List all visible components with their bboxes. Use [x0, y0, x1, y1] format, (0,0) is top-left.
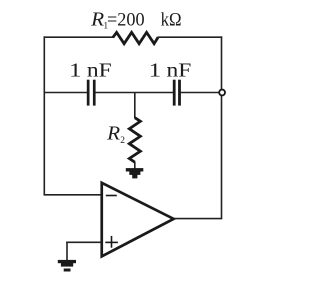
wire: right vertical of feedback loop: [221, 36, 223, 218]
wire: capacitor row middle segment: [95, 92, 173, 94]
op-amp U1 plus sign: [105, 236, 118, 248]
wire: left vertical of feedback loop: [43, 36, 45, 194]
svg-text:1: 1: [69, 59, 82, 81]
wire: op-amp output: [174, 218, 222, 220]
svg-text:=200: =200: [107, 9, 145, 30]
capacitor C1: [87, 80, 96, 106]
resistor R2: [129, 118, 140, 163]
wire: top horizontal left segment: [44, 36, 114, 38]
svg-text:kΩ: kΩ: [161, 9, 182, 30]
wire: capacitor row left segment: [44, 92, 87, 94]
svg-text:R: R: [106, 123, 120, 144]
svg-text:R: R: [90, 9, 104, 30]
svg-text:1: 1: [149, 59, 162, 81]
ground: at non-inverting input: [58, 260, 76, 272]
op-amp U1: [100, 181, 176, 259]
ground: below R2: [126, 168, 144, 178]
wire: inverting input: [44, 194, 102, 196]
wire: capacitor row right segment: [181, 92, 219, 94]
wire: R2 top lead: [134, 93, 136, 119]
svg-text:nF: nF: [87, 59, 112, 81]
svg-text:2: 2: [120, 136, 125, 146]
resistor R1: [113, 32, 158, 43]
wire: non-inverting input ground lead: [66, 242, 68, 261]
node: output terminal circle: [219, 90, 225, 96]
wire: non-inverting input horizontal: [66, 241, 101, 243]
op-amp U1 minus sign: [106, 195, 117, 197]
capacitor C2: [173, 80, 181, 106]
wire: R2 bottom lead: [134, 162, 136, 169]
wire: top horizontal right segment: [158, 36, 223, 38]
svg-text:nF: nF: [167, 59, 192, 81]
